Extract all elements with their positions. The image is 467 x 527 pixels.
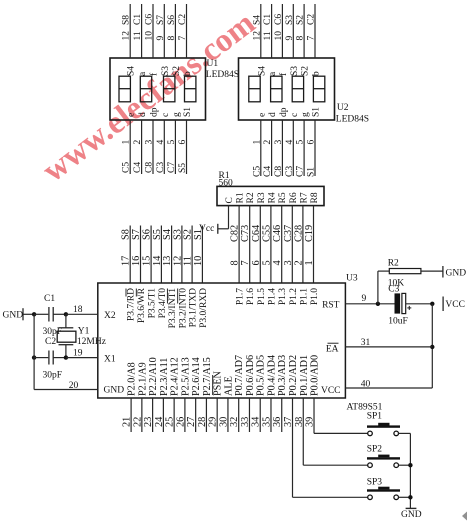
svg-text:28: 28 <box>197 417 208 427</box>
wire net C46 to U3 pin 4 <box>272 206 283 283</box>
svg-text:S7: S7 <box>131 229 142 240</box>
wire U1 pin 1 net C5 <box>122 120 132 174</box>
svg-text:P2.3/A11: P2.3/A11 <box>159 358 170 396</box>
svg-text:SP2: SP2 <box>367 445 383 455</box>
svg-text:C6: C6 <box>145 14 155 25</box>
svg-text:P2.2/A10: P2.2/A10 <box>148 357 159 396</box>
wire U1 pin 4 net C3 <box>156 120 166 174</box>
svg-text:22: 22 <box>132 417 143 427</box>
wire net S3 to U3 pin 12 <box>172 226 183 284</box>
svg-text:31: 31 <box>361 338 371 348</box>
wire net C19 to U3 pin 1 <box>304 206 315 283</box>
wire U1 pin 9 net S7 <box>156 4 166 58</box>
svg-text:6: 6 <box>307 140 317 145</box>
wire net C73 to U3 pin 7 <box>240 206 251 283</box>
svg-text:GND: GND <box>446 269 467 279</box>
U2 top row pin names <box>257 66 321 76</box>
svg-text:C7: C7 <box>167 162 177 173</box>
svg-text:g: g <box>301 112 311 117</box>
wire U2 pin 12 net S4 <box>252 4 262 58</box>
svg-text:10: 10 <box>193 256 204 266</box>
svg-text:R2: R2 <box>388 259 399 269</box>
svg-text:VCC: VCC <box>445 300 465 310</box>
svg-text:C1: C1 <box>133 14 143 25</box>
svg-text:C19: C19 <box>304 225 315 242</box>
ground GND left <box>3 308 35 320</box>
svg-text:X2: X2 <box>104 311 116 321</box>
svg-text:S1: S1 <box>183 107 193 117</box>
svg-text:21: 21 <box>122 417 133 427</box>
svg-text:S7: S7 <box>156 15 166 25</box>
svg-text:S3: S3 <box>285 15 295 25</box>
capacitor C3 10uF <box>388 285 432 327</box>
svg-text:R6: R6 <box>289 192 299 203</box>
svg-text:3: 3 <box>283 260 294 265</box>
svg-text:P2.0/A8: P2.0/A8 <box>127 362 138 396</box>
svg-text:C3: C3 <box>388 285 399 295</box>
svg-text:C4: C4 <box>263 166 273 177</box>
svg-text:C64: C64 <box>251 225 262 242</box>
svg-text:30pF: 30pF <box>43 327 63 337</box>
svg-text:3: 3 <box>145 140 155 145</box>
svg-text:C1: C1 <box>263 14 273 25</box>
wire U2 pin 7 net C2 <box>307 4 317 58</box>
svg-text:C4: C4 <box>133 162 143 173</box>
U1 top row pin names <box>127 66 193 76</box>
svg-text:S4: S4 <box>257 66 267 76</box>
svg-text:24: 24 <box>154 417 165 427</box>
svg-text:23: 23 <box>143 417 154 427</box>
svg-text:C2: C2 <box>45 337 56 347</box>
wire U2 pin 9 net S3 <box>285 4 295 58</box>
svg-text:10: 10 <box>145 31 155 41</box>
svg-text:R4: R4 <box>267 192 277 203</box>
svg-text:9: 9 <box>156 36 166 41</box>
wire U3 pin 34 <box>251 398 262 432</box>
svg-text:P0.1/AD1: P0.1/AD1 <box>299 355 310 396</box>
wire net S4 to U3 pin 13 <box>162 226 173 284</box>
wire switch common <box>409 433 411 508</box>
svg-text:U2: U2 <box>337 103 349 113</box>
svg-text:10: 10 <box>274 31 284 41</box>
wire U1 pin 10 net C6 <box>145 4 155 58</box>
svg-text:27: 27 <box>186 417 197 427</box>
svg-text:C5: C5 <box>122 162 132 173</box>
svg-text:b: b <box>312 71 322 76</box>
R1 pin names <box>225 192 320 203</box>
svg-text:GND: GND <box>401 510 422 520</box>
svg-text:SP1: SP1 <box>367 412 383 422</box>
wire U3 pin 32 <box>229 398 240 432</box>
svg-text:LED84S: LED84S <box>206 70 239 80</box>
svg-text:e: e <box>127 113 137 117</box>
junction X1 crystal <box>64 355 68 359</box>
MCU U3 body <box>98 283 346 398</box>
svg-text:39: 39 <box>305 417 316 427</box>
U3 right pin labels RST EA VCC <box>321 301 341 397</box>
junction X1 left <box>32 355 36 359</box>
wire U2 pin 5 net C7 <box>296 120 306 177</box>
svg-text:P0.7/AD7: P0.7/AD7 <box>234 355 245 396</box>
svg-text:35: 35 <box>261 417 272 427</box>
svg-text:S4: S4 <box>127 66 137 76</box>
svg-text:P1.1: P1.1 <box>299 288 309 305</box>
svg-text:X1: X1 <box>104 355 116 365</box>
svg-text:P3.5/T1: P3.5/T1 <box>148 288 158 319</box>
svg-text:34: 34 <box>251 417 262 427</box>
power VCC right <box>443 297 465 312</box>
svg-text:9: 9 <box>362 294 367 304</box>
svg-text:7: 7 <box>307 36 317 41</box>
svg-text:P1.4: P1.4 <box>267 288 277 305</box>
U3 top pin names P1 port <box>236 288 320 305</box>
svg-text:RST: RST <box>322 301 340 311</box>
wire U3 pin 28 <box>197 398 208 432</box>
svg-text:7: 7 <box>178 36 188 41</box>
junction SP3 common <box>408 495 412 499</box>
svg-text:P0.5/AD5: P0.5/AD5 <box>256 355 267 396</box>
svg-text:b: b <box>183 71 193 76</box>
svg-text:25: 25 <box>165 417 176 427</box>
svg-text:1: 1 <box>304 260 315 265</box>
junction X2 left <box>32 312 36 316</box>
svg-text:P1.0: P1.0 <box>310 288 320 305</box>
svg-text:P2.1/A9: P2.1/A9 <box>137 362 148 396</box>
wire U2 pin 6 net S1 <box>307 120 317 177</box>
svg-text:U1: U1 <box>207 59 219 69</box>
wire net C55 to U3 pin 5 <box>261 206 272 283</box>
svg-text:C2: C2 <box>307 14 317 25</box>
wire U2 pin 8 net S2 <box>296 4 306 58</box>
svg-text:8: 8 <box>230 260 241 265</box>
crystal Y1 12MHz <box>57 314 106 357</box>
wire U3 pin 30 <box>218 398 229 432</box>
svg-text:1: 1 <box>122 140 132 145</box>
svg-text:P1.2: P1.2 <box>289 288 299 305</box>
svg-text:C5: C5 <box>252 166 262 177</box>
LED display U2 body <box>239 58 335 120</box>
ground GND right <box>443 266 466 279</box>
wire net C28 to U3 pin 2 <box>293 206 304 283</box>
svg-text:VCC: VCC <box>321 386 341 396</box>
svg-text:32: 32 <box>229 417 240 427</box>
svg-text:R7: R7 <box>299 192 309 203</box>
wire net C64 to U3 pin 6 <box>251 206 262 283</box>
svg-text:P0.3/AD3: P0.3/AD3 <box>277 355 288 396</box>
wire U2 pin 4 net C3 <box>285 120 295 177</box>
wire X1 pin 19 <box>66 349 98 359</box>
wire pin 38 to SP2 <box>294 398 368 465</box>
svg-text:P0.2/AD2: P0.2/AD2 <box>288 355 299 396</box>
svg-text:6: 6 <box>178 140 188 145</box>
wire U2 pin 1 net C5 <box>252 120 262 177</box>
svg-text:P1.3: P1.3 <box>278 288 288 305</box>
svg-text:P0.4/AD4: P0.4/AD4 <box>266 355 277 396</box>
svg-text:4: 4 <box>285 140 295 145</box>
svg-text:e: e <box>257 113 267 117</box>
svg-text:P2.6/A14: P2.6/A14 <box>191 357 202 396</box>
svg-text:P3.0/RXD: P3.0/RXD <box>199 288 209 328</box>
svg-text:P3.7/RD: P3.7/RD <box>127 288 137 321</box>
wire U1 pin 8 net S6 <box>167 4 177 58</box>
svg-text:2: 2 <box>133 140 143 145</box>
svg-text:a: a <box>268 71 278 76</box>
svg-text:R8: R8 <box>310 192 320 203</box>
svg-text:560: 560 <box>219 179 234 189</box>
svg-text:S1: S1 <box>307 167 317 177</box>
wire U2 pin 10 net C6 <box>274 4 284 58</box>
svg-text:5: 5 <box>261 260 272 265</box>
svg-text:40: 40 <box>361 380 371 390</box>
svg-text:S1: S1 <box>312 107 322 117</box>
svg-text:LED84S: LED84S <box>336 115 369 125</box>
svg-text:C3: C3 <box>156 162 166 173</box>
svg-text:S5: S5 <box>178 163 188 173</box>
wire U3 pin 24 <box>154 398 165 432</box>
wire U3 pin 33 <box>240 398 251 432</box>
push button SP3 <box>367 478 411 500</box>
U1 reference designator <box>206 59 239 80</box>
svg-text:11: 11 <box>133 31 143 40</box>
svg-text:ALE: ALE <box>223 376 234 396</box>
svg-text:SP3: SP3 <box>367 478 383 488</box>
svg-text:GND: GND <box>104 386 125 396</box>
svg-text:C28: C28 <box>293 225 304 242</box>
svg-text:P0.6/AD6: P0.6/AD6 <box>245 355 256 396</box>
wire U3 pin 23 <box>143 398 154 432</box>
svg-text:GND: GND <box>3 311 24 321</box>
svg-text:1: 1 <box>252 140 262 145</box>
wire U2 pin 2 net C4 <box>263 120 273 177</box>
svg-text:S6: S6 <box>167 15 177 25</box>
svg-text:4: 4 <box>272 260 283 265</box>
svg-text:18: 18 <box>73 305 83 315</box>
svg-text:5: 5 <box>167 140 177 145</box>
svg-text:C82: C82 <box>230 225 241 242</box>
svg-text:P3.6/WR: P3.6/WR <box>137 287 147 323</box>
wire U3 pin 27 <box>186 398 197 432</box>
wire U2 pin 11 net C1 <box>263 4 273 58</box>
wire net S2 to U3 pin 11 <box>183 226 194 284</box>
svg-text:PSEN: PSEN <box>213 370 224 396</box>
wire U1 pin 12 net S8 <box>122 4 132 58</box>
capacitor C2 30pF <box>34 337 66 381</box>
power Vcc at R1 common pin <box>199 206 229 235</box>
wire VCC rail <box>431 304 433 388</box>
wire pin 39 to SP1 <box>305 398 368 433</box>
svg-text:2: 2 <box>293 260 304 265</box>
svg-text:12: 12 <box>252 31 262 41</box>
LED display U1 body <box>110 58 206 120</box>
svg-text:P1.7: P1.7 <box>236 288 246 305</box>
R1 reference and value 560 <box>219 171 234 189</box>
svg-text:P1.5: P1.5 <box>257 288 267 305</box>
U2 reference designator <box>336 103 369 125</box>
svg-text:C55: C55 <box>261 225 272 242</box>
wire EA pin 31 <box>345 338 432 348</box>
svg-text:S2: S2 <box>172 66 182 76</box>
svg-text:C6: C6 <box>274 14 284 25</box>
wire U1 pin 7 net C2 <box>178 4 188 58</box>
svg-text:Y1: Y1 <box>78 327 90 337</box>
svg-text:8: 8 <box>296 36 306 41</box>
wire net C82 to U3 pin 8 <box>230 206 241 283</box>
wire U3 pin 22 <box>132 398 143 432</box>
resistor R2 10K <box>378 259 443 304</box>
svg-text:7: 7 <box>240 260 251 265</box>
wire U1 pin 3 net C8 <box>145 120 155 174</box>
wire VCC pin 40 <box>345 380 432 390</box>
wire U3 pin 26 <box>175 398 186 432</box>
U3 top pin names P3 port <box>126 287 209 328</box>
svg-text:R3: R3 <box>257 192 267 203</box>
svg-text:S3: S3 <box>161 66 171 76</box>
svg-text:S2: S2 <box>301 66 311 76</box>
wire net S7 to U3 pin 16 <box>131 226 142 284</box>
wire net S1 to U3 pin 10 <box>193 226 204 284</box>
svg-text:a: a <box>138 71 148 76</box>
svg-text:P0.0/AD0: P0.0/AD0 <box>310 355 321 396</box>
wire net S5 to U3 pin 14 <box>152 226 163 284</box>
svg-text:d: d <box>138 112 148 117</box>
svg-text:EA: EA <box>326 345 339 355</box>
svg-text:6: 6 <box>251 260 262 265</box>
wire net C37 to U3 pin 3 <box>283 206 294 283</box>
wire U1 pin 11 net C1 <box>133 4 143 58</box>
svg-text:37: 37 <box>283 417 294 427</box>
resistor network R1 body <box>217 186 324 205</box>
capacitor C1 30pF <box>34 294 66 337</box>
svg-text:38: 38 <box>294 417 305 427</box>
svg-text:R5: R5 <box>278 192 288 203</box>
junction RST <box>376 302 380 306</box>
svg-text:19: 19 <box>73 349 83 359</box>
svg-text:U3: U3 <box>346 274 358 284</box>
svg-text:R1: R1 <box>236 192 246 203</box>
svg-text:10uF: 10uF <box>388 317 408 327</box>
wire U1 pin 2 net C4 <box>133 120 143 174</box>
svg-text:C8: C8 <box>145 162 155 173</box>
svg-text:C37: C37 <box>283 225 294 242</box>
svg-text:36: 36 <box>272 417 283 427</box>
svg-text:5: 5 <box>296 140 306 145</box>
svg-text:3: 3 <box>274 140 284 145</box>
edge mark <box>462 512 467 521</box>
svg-text:S1: S1 <box>193 229 204 240</box>
U1 digit segments <box>119 76 196 102</box>
U2 digit segments <box>249 76 325 102</box>
svg-text:12: 12 <box>122 31 132 41</box>
svg-text:g: g <box>172 112 182 117</box>
junction VCC rail <box>430 302 434 306</box>
svg-text:P3.2/INT0: P3.2/INT0 <box>178 288 188 329</box>
wire U3 pin 35 <box>261 398 272 432</box>
svg-text:S8: S8 <box>122 15 132 25</box>
U2 bottom row pin names <box>257 107 321 117</box>
svg-text:C2: C2 <box>178 14 188 25</box>
svg-text:P2.5/A13: P2.5/A13 <box>180 357 191 396</box>
svg-text:C7: C7 <box>296 166 306 177</box>
U1 bottom row pin names <box>127 107 193 117</box>
U3 reference designator <box>346 274 383 413</box>
wire RST pin 9 <box>345 294 394 304</box>
wire U1 pin 5 net C7 <box>167 120 177 174</box>
wire U3 pin 29 <box>208 398 219 432</box>
wire U1 pin 6 net S5 <box>178 120 188 174</box>
U3 left pin labels X2 X1 GND <box>104 311 125 396</box>
junction SP2 common <box>408 463 412 467</box>
svg-text:P3.3/INT1: P3.3/INT1 <box>168 288 178 329</box>
svg-text:dp: dp <box>150 107 160 117</box>
svg-text:P2.7/A15: P2.7/A15 <box>202 357 213 396</box>
svg-text:c: c <box>290 113 300 117</box>
wire X2 pin 18 <box>66 305 98 315</box>
svg-text:30pF: 30pF <box>43 371 63 381</box>
svg-text:P3.1/TXD: P3.1/TXD <box>189 288 199 327</box>
wire U3 pin 36 <box>272 398 283 432</box>
svg-text:C1: C1 <box>44 294 55 304</box>
ground GND bottom <box>401 508 422 520</box>
svg-text:C73: C73 <box>240 225 251 242</box>
svg-text:R2: R2 <box>246 192 256 203</box>
svg-text:d: d <box>268 112 278 117</box>
wire pin 37 to SP3 <box>283 398 368 497</box>
svg-text:2: 2 <box>263 140 273 145</box>
wire U3 pin 25 <box>165 398 176 432</box>
svg-text:P1.6: P1.6 <box>246 288 256 305</box>
svg-text:30: 30 <box>218 417 229 427</box>
svg-text:C3: C3 <box>285 166 295 177</box>
push button SP2 <box>367 445 411 468</box>
svg-text:16: 16 <box>131 256 142 266</box>
wire U3 pin 21 <box>122 398 133 432</box>
svg-text:12MHz: 12MHz <box>77 337 106 347</box>
svg-text:C46: C46 <box>272 225 283 242</box>
wire GND pin 20 <box>34 314 98 391</box>
svg-text:4: 4 <box>156 140 166 145</box>
junction EA <box>430 345 434 349</box>
junction X2 crystal <box>64 312 68 316</box>
svg-text:S2: S2 <box>296 15 306 25</box>
svg-text:f: f <box>278 72 289 76</box>
svg-text:C8: C8 <box>274 166 284 177</box>
svg-text:8: 8 <box>167 36 177 41</box>
svg-text:29: 29 <box>208 417 219 427</box>
svg-text:dp: dp <box>279 107 289 117</box>
push button SP1 <box>367 412 411 436</box>
svg-text:11: 11 <box>263 31 273 40</box>
svg-text:S4: S4 <box>252 15 262 25</box>
svg-text:S3: S3 <box>290 66 300 76</box>
U3 bottom pin names P2 P0 ports <box>127 355 321 396</box>
svg-text:9: 9 <box>285 36 295 41</box>
svg-text:P3.4/T0: P3.4/T0 <box>158 288 168 319</box>
svg-text:C: C <box>225 197 235 203</box>
wire net S8 to U3 pin 17 <box>121 226 132 284</box>
watermark www.elecfans.com <box>36 5 262 189</box>
svg-text:33: 33 <box>240 417 251 427</box>
svg-text:P2.4/A12: P2.4/A12 <box>170 357 181 396</box>
svg-text:c: c <box>161 113 171 117</box>
wire net S6 to U3 pin 15 <box>142 226 153 284</box>
wire U2 pin 3 net C8 <box>274 120 284 177</box>
svg-text:20: 20 <box>69 381 79 391</box>
svg-text:26: 26 <box>175 417 186 427</box>
